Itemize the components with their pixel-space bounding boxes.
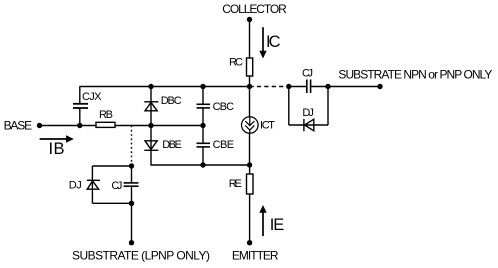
wire dotted base to left substrate network — [131, 126, 133, 167]
svg-text:SUBSTRATE (LPNP ONLY): SUBSTRATE (LPNP ONLY) — [72, 248, 210, 262]
svg-text:IB: IB — [49, 140, 65, 158]
node middle rail junction dots — [77, 123, 206, 128]
diode DJ left — [87, 166, 132, 203]
svg-text:COLLECTOR: COLLECTOR — [222, 2, 287, 16]
svg-text:RE: RE — [229, 178, 242, 190]
svg-text:CBE: CBE — [213, 139, 235, 151]
current arrow IE — [259, 205, 266, 236]
current arrow IC — [259, 27, 266, 58]
diode DBE — [144, 126, 158, 151]
wire left substrate network to terminal — [131, 203, 133, 242]
svg-text:IC: IC — [266, 33, 281, 51]
wire RE leads — [249, 165, 251, 174]
current source ICT — [242, 117, 259, 134]
capacitor CJ right — [289, 80, 328, 94]
node top rail junction dots — [148, 84, 330, 89]
svg-text:IE: IE — [270, 216, 285, 234]
svg-text:CJ: CJ — [302, 68, 313, 80]
wire bottom emitter rail — [151, 150, 250, 165]
wire top rail base-collector row — [80, 86, 250, 88]
node collector terminal dot — [247, 17, 252, 22]
wire emitter vertical through ICT — [249, 87, 251, 118]
node base terminal dot — [37, 123, 42, 128]
capacitor CBE — [197, 126, 211, 166]
svg-text:RB: RB — [99, 109, 113, 121]
terminal SUBSTRATE LPNP — [129, 240, 134, 245]
svg-text:ICT: ICT — [260, 119, 275, 131]
wire RC to collector node — [249, 76, 251, 87]
wire collector vertical — [249, 20, 251, 59]
resistor RC — [247, 58, 253, 76]
svg-text:CJX: CJX — [82, 91, 102, 103]
node substrate npn terminal dot — [377, 84, 382, 89]
svg-text:EMITTER: EMITTER — [232, 248, 279, 262]
capacitor CJX — [73, 87, 88, 126]
svg-text:CBC: CBC — [213, 101, 235, 113]
diode DBC — [144, 87, 158, 126]
wire ICT to bottom rail — [249, 134, 251, 166]
wire middle base rail — [40, 125, 204, 127]
diode DJ right — [289, 87, 328, 132]
capacitor CBC — [197, 87, 211, 126]
capacitor CJ left — [124, 166, 139, 203]
svg-text:DJ: DJ — [69, 179, 82, 191]
svg-text:CJ: CJ — [111, 180, 122, 192]
wire dashed collector to substrate node — [250, 86, 289, 88]
svg-text:DBE: DBE — [162, 139, 182, 151]
node bottom rail junction dots — [200, 162, 252, 167]
current arrow IB — [40, 135, 74, 142]
svg-text:SUBSTRATE NPN or PNP ONLY: SUBSTRATE NPN or PNP ONLY — [338, 68, 492, 82]
svg-text:RC: RC — [229, 57, 243, 69]
wire right rail to substrate terminal — [328, 86, 380, 88]
terminal EMITTER — [247, 240, 252, 245]
svg-text:DJ: DJ — [302, 107, 314, 119]
svg-text:DBC: DBC — [161, 95, 182, 107]
node left substrate network dots — [129, 163, 134, 168]
svg-text:BASE: BASE — [4, 118, 32, 132]
resistor RE — [247, 174, 254, 194]
resistor RB — [96, 122, 115, 127]
